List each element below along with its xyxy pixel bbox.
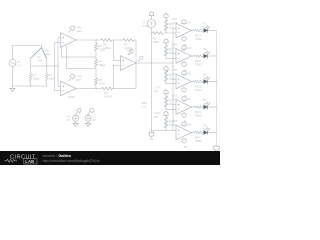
ground flag ladder bottom xyxy=(151,130,153,132)
wire OA1 underside tap A to divider top gap xyxy=(62,47,97,58)
svg-text:10k: 10k xyxy=(38,58,43,62)
LED D5 xyxy=(204,127,210,134)
LED D4 xyxy=(204,102,210,109)
svg-text:1 V: 1 V xyxy=(17,63,21,67)
wire LED cathode bus x216.5 xyxy=(216,31,218,147)
svg-text:330Ω: 330Ω xyxy=(195,37,202,41)
svg-text:100kΩ: 100kΩ xyxy=(103,46,111,50)
wire bus stubs to op-amp plus inputs xyxy=(173,28,176,105)
svg-text:Anselm / Galileo: Anselm / Galileo xyxy=(43,154,72,158)
LED D3 xyxy=(204,76,210,83)
wire riser x54.5 OA1 -in to OA2 -in xyxy=(55,42,61,91)
resistor RL1 xyxy=(165,20,168,31)
svg-text:330Ω: 330Ω xyxy=(195,88,202,92)
wire tap5 ladder bottom to stage5 xyxy=(152,129,177,131)
svg-text:gain: gain xyxy=(77,29,83,33)
svg-text:10kΩ: 10kΩ xyxy=(99,81,106,85)
resistor RT2 bridge diagonal right mark xyxy=(42,48,47,59)
resistor R1 xyxy=(29,74,32,81)
LED D1 xyxy=(204,25,210,32)
svg-text:red: red xyxy=(203,76,207,80)
svg-text:330Ω: 330Ω xyxy=(195,139,202,143)
op-amp OA6 xyxy=(176,71,217,93)
svg-text:LAB: LAB xyxy=(25,159,34,164)
svg-text:10kΩ: 10kΩ xyxy=(99,63,106,67)
op-amp OA5 xyxy=(176,45,217,67)
wire tap3 ladder to stage3 xyxy=(166,83,176,85)
flag OA1 top xyxy=(68,30,71,33)
wire divider x96 vertical xyxy=(95,40,97,89)
wire bridge bottom left vertical xyxy=(30,66,32,86)
wire comparator input bus x173 xyxy=(172,28,174,130)
resistor RL5 xyxy=(165,117,168,128)
wire tap2 ladder to stage2 xyxy=(166,57,176,59)
svg-text:red: red xyxy=(203,127,207,131)
resistor R7 feedback top xyxy=(123,39,134,42)
battery V2 xyxy=(73,107,83,126)
flag OA3 top xyxy=(128,53,130,55)
resistor RL3 xyxy=(165,71,168,82)
svg-text:red: red xyxy=(203,101,207,105)
wire bridge bottom right vertical xyxy=(46,66,48,86)
source I1 xyxy=(148,20,156,28)
source V1 xyxy=(9,60,16,67)
wire OA3 noninverting riser x113.5 xyxy=(114,40,121,61)
flag ladder seg2 xyxy=(164,39,168,43)
op-amp OA2 xyxy=(61,81,77,96)
op-amp OA3 xyxy=(121,56,137,71)
svg-text:tap: tap xyxy=(154,89,158,93)
svg-text:cmp: cmp xyxy=(172,97,178,101)
op-amp OA7 xyxy=(176,96,217,118)
right column comparator stages xyxy=(176,20,219,152)
svg-text:330Ω: 330Ω xyxy=(195,113,202,117)
wire OA3 output to comparator bus xyxy=(136,62,173,64)
svg-text:+9V: +9V xyxy=(187,22,192,25)
resistor R5 divider bottom xyxy=(95,78,98,85)
flag ladder seg3 xyxy=(164,66,168,70)
svg-text:10kΩ: 10kΩ xyxy=(49,76,56,80)
resistor R9 series to ladder xyxy=(153,32,164,35)
flag OA2 top xyxy=(68,79,71,82)
svg-text:cmp: cmp xyxy=(172,122,178,126)
wire ladder segments x166 xyxy=(165,31,167,131)
resistor RL4 xyxy=(165,96,168,107)
svg-text:9V: 9V xyxy=(67,118,71,122)
svg-text:330Ω: 330Ω xyxy=(195,62,202,66)
resistor RL2 xyxy=(165,45,168,56)
wire source column x151.5 down to ladder bottom xyxy=(151,28,153,131)
svg-text:0V: 0V xyxy=(150,137,154,141)
svg-text:+9V: +9V xyxy=(187,98,192,101)
wire bridge left leg xyxy=(31,48,42,67)
flag ladder seg4 xyxy=(164,90,168,94)
wire OA3 feedback vertical x136 xyxy=(135,40,137,89)
svg-text:10k: 10k xyxy=(46,52,51,56)
stage labels xyxy=(172,17,208,143)
svg-text:red: red xyxy=(203,25,207,29)
wire OA3 inverting riser x113.5 xyxy=(114,65,121,88)
wire source V1 up and right to bridge apex xyxy=(13,46,42,60)
ground flag LED bus bottom xyxy=(214,146,219,151)
svg-text:100kΩ: 100kΩ xyxy=(104,94,112,98)
resistor R3 divider top xyxy=(95,44,98,51)
flag net at OA3 output apex xyxy=(138,59,140,61)
ground flag left block xyxy=(12,86,14,88)
svg-text:1kΩ: 1kΩ xyxy=(169,25,174,29)
svg-text:cmp: cmp xyxy=(172,20,178,24)
svg-text:cmp: cmp xyxy=(172,71,178,75)
svg-text:http://circuitlab.com/c6shugfe: http://circuitlab.com/c6shugfe37s2w xyxy=(43,159,100,163)
svg-text:gain: gain xyxy=(77,77,83,81)
flag ladder seg1 xyxy=(164,13,168,17)
wire bridge bus xyxy=(31,65,59,67)
tiny value labels xyxy=(17,21,174,142)
svg-text:10kΩ: 10kΩ xyxy=(33,76,40,80)
footer bar xyxy=(0,151,220,165)
flag ladder seg5 xyxy=(164,111,168,115)
op-amp OA1 xyxy=(61,33,77,48)
LED D2 xyxy=(204,51,210,58)
wire riser x58 OA1 +in to OA2 +in xyxy=(58,38,61,86)
wire OA1 output run y40 xyxy=(76,39,136,41)
svg-text:+9V: +9V xyxy=(187,73,192,76)
resistor RT1 bridge diagonal left mark xyxy=(31,48,42,59)
svg-text:100Ω: 100Ω xyxy=(153,40,160,44)
logo zigzag xyxy=(5,159,17,162)
battery V3 xyxy=(85,107,95,126)
wire bridge right leg xyxy=(42,48,47,67)
wire tap1 from R9 to ladder and stage1 xyxy=(165,32,176,34)
svg-text:+9V: +9V xyxy=(187,124,192,127)
junction dots xyxy=(30,32,217,130)
svg-text:cmp: cmp xyxy=(172,46,178,50)
op-amp OA8 xyxy=(176,122,217,144)
batteries bottom middle xyxy=(73,107,95,126)
logo LAB xyxy=(24,159,37,164)
svg-text:-9V: -9V xyxy=(183,146,187,149)
flag node top of source I1 xyxy=(149,12,153,16)
svg-text:OA2b: OA2b xyxy=(68,95,76,99)
wire ground rail left block xyxy=(13,67,47,87)
op-amp OA4 xyxy=(176,20,217,42)
svg-text:1kΩ: 1kΩ xyxy=(169,102,174,106)
wire OA1 underside tap B to divider lower gap xyxy=(67,46,97,69)
resistor R2 xyxy=(45,74,48,81)
wire tap4 ladder to stage4 xyxy=(166,108,176,110)
resistor R8 on OA2 output xyxy=(102,87,113,90)
svg-text:9V: 9V xyxy=(92,118,96,122)
svg-text:1mA: 1mA xyxy=(143,24,149,28)
svg-text:+9V: +9V xyxy=(187,47,192,50)
resistor R6 on OA1 output xyxy=(101,39,112,42)
svg-text:red: red xyxy=(203,50,207,54)
svg-text:1kΩ: 1kΩ xyxy=(169,51,174,55)
svg-text:cmp: cmp xyxy=(127,52,133,56)
svg-text:out: out xyxy=(142,104,146,108)
resistor R4 divider mid xyxy=(95,60,98,67)
wire OA2 output run y88.5 xyxy=(76,88,136,90)
svg-text:1kΩ: 1kΩ xyxy=(169,76,174,80)
svg-text:tap: tap xyxy=(154,114,158,118)
